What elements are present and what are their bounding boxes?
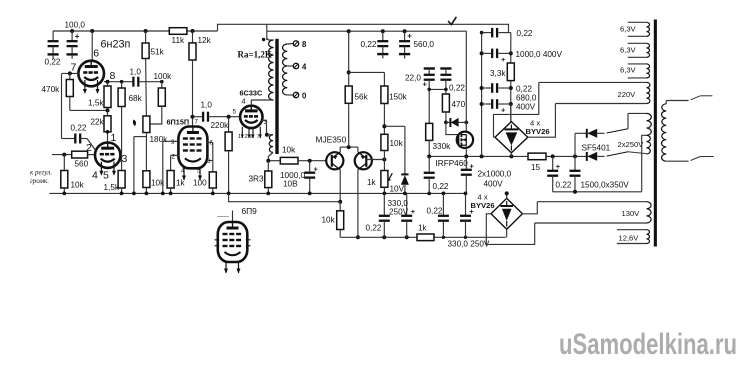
resistor 11k inline	[169, 28, 187, 35]
resistor 1k preset	[381, 171, 388, 188]
wire 6П15П screen	[207, 142, 213, 144]
wire lower ground branch	[229, 193, 341, 201]
capacitor 0,22 filter1	[482, 32, 492, 34]
svg-text:8: 8	[302, 40, 307, 49]
wire branch to 150k	[349, 71, 385, 73]
wire 330k column	[428, 89, 430, 123]
svg-text:1000,0 400V: 1000,0 400V	[516, 50, 563, 59]
svg-text:330,0 250V: 330,0 250V	[448, 240, 490, 249]
output transformer core	[275, 39, 278, 154]
capacitor 330,0 250V polar	[406, 193, 408, 215]
wire tap 0	[288, 94, 294, 96]
wire ground rail	[49, 192, 466, 194]
winding 220V	[539, 81, 647, 83]
diode gate protect	[444, 121, 448, 125]
svg-text:IRFP460: IRFP460	[436, 159, 469, 168]
junction	[169, 192, 173, 196]
resistor 100 (screen)	[209, 172, 216, 188]
wire Q1 collector	[339, 170, 341, 202]
wire bridge2 AC left	[486, 214, 534, 245]
capacitor 1500,0x350V	[574, 156, 576, 170]
resistor 22k	[104, 116, 111, 132]
svg-text:470: 470	[452, 100, 466, 109]
wire 180k left branch	[134, 136, 147, 138]
resistor 1k inline	[417, 234, 434, 241]
svg-text:+: +	[470, 162, 475, 171]
winding 6,3V #3	[628, 63, 647, 65]
capacitor 0,22 coupling	[62, 138, 75, 140]
junction	[132, 192, 136, 196]
svg-text:330k: 330k	[433, 142, 452, 151]
resistor 150k	[381, 86, 388, 104]
svg-text:15: 15	[531, 163, 541, 172]
wire 6С33С pin3 to winding	[261, 121, 267, 135]
svg-text:BYV26: BYV26	[526, 127, 550, 136]
resistor 68k	[120, 80, 124, 84]
svg-text:+: +	[556, 162, 561, 171]
resistor 3,3k	[507, 63, 514, 81]
wire Q2 collector	[357, 170, 359, 238]
wire bridge1 DC top	[510, 104, 512, 122]
svg-text:2x250V: 2x250V	[618, 140, 645, 149]
resistor 12k	[191, 29, 195, 33]
wire bridge2 DC top	[506, 193, 508, 198]
transformer core	[654, 20, 657, 247]
wire 6С33С anode to primary	[250, 100, 252, 106]
wire bridge1 DC bottom	[510, 153, 512, 157]
svg-text:+: +	[411, 207, 416, 216]
svg-text:10k: 10k	[390, 139, 404, 148]
wire 6П9 top lead	[232, 211, 234, 223]
svg-text:6,3V: 6,3V	[620, 25, 637, 34]
svg-text:150k: 150k	[389, 93, 408, 102]
wire bridge1 AC left	[494, 136, 495, 138]
resistor 1k (6П15П cathode)	[167, 171, 174, 189]
svg-text:MJE350: MJE350	[316, 135, 347, 145]
tube 6С33С	[240, 106, 262, 128]
wire primary top + switch	[666, 100, 688, 102]
svg-text:громк.: громк.	[30, 177, 49, 185]
svg-text:0,22: 0,22	[449, 84, 465, 93]
svg-text:100k: 100k	[154, 72, 173, 81]
resistor 10k (reg divider)	[381, 134, 388, 150]
tube 6н23п triode B	[95, 143, 120, 168]
junction	[62, 192, 66, 196]
svg-text:68k: 68k	[129, 94, 143, 103]
output transformer primary lower	[267, 134, 274, 136]
svg-text:1k: 1k	[367, 178, 377, 187]
capacitor 0,22 filter2	[482, 87, 492, 89]
preset wiper arrow	[388, 173, 392, 180]
transformer primary	[662, 104, 667, 161]
capacitor 0,22 (snubber)	[552, 156, 554, 170]
junction	[227, 192, 231, 196]
svg-text:6П9: 6П9	[242, 206, 258, 216]
svg-text:6,3V: 6,3V	[620, 66, 637, 75]
svg-text:4: 4	[302, 63, 307, 72]
resistor 100k	[160, 80, 164, 84]
svg-text:5: 5	[233, 109, 237, 116]
wire 1,5k-22k node	[107, 108, 109, 116]
bridge rectifier 4x BYV26 (bias)	[491, 198, 522, 229]
wire tap 4	[288, 65, 294, 67]
capacitor 330,0 250V polar 2	[465, 193, 467, 215]
svg-text:2: 2	[172, 154, 176, 161]
wire bridge2 DC bottom	[506, 229, 508, 237]
wire negative rail	[340, 236, 417, 238]
capacitor 0,22 gate	[440, 67, 451, 69]
junction	[403, 192, 407, 196]
svg-text:400V: 400V	[484, 180, 504, 189]
svg-text:130V: 130V	[622, 209, 641, 218]
resistor 10k horizontal	[280, 157, 298, 164]
svg-text:560: 560	[75, 160, 89, 169]
wire tap 8	[288, 43, 294, 46]
wire outer top rail with step	[218, 24, 509, 33]
svg-text:+: +	[75, 32, 80, 41]
wire Q1 Q2 emitters	[339, 147, 341, 152]
resistor 330k	[426, 123, 433, 140]
resistor 3R3	[267, 161, 269, 171]
capacitor 100,0 polar	[70, 29, 74, 33]
svg-text:11k: 11k	[172, 36, 185, 45]
svg-text:1,5k: 1,5k	[88, 99, 104, 108]
wire CT return	[553, 191, 642, 193]
wire source to B+ line	[465, 145, 467, 156]
resistor 560 input	[72, 151, 88, 158]
resistor 180k	[143, 116, 150, 133]
svg-text:10k: 10k	[322, 216, 336, 225]
resistor 10k input	[63, 155, 65, 171]
terminal Ø4	[293, 63, 298, 68]
resistor 56k	[345, 86, 352, 103]
zener diode 10V	[401, 173, 408, 175]
svg-text:5: 5	[103, 170, 109, 182]
wire node 470k-22k	[70, 109, 108, 111]
svg-text:1k: 1k	[418, 223, 428, 232]
transistor MJE350 Q1	[326, 152, 343, 169]
junction	[308, 192, 312, 196]
wire bridge2 AC right	[522, 202, 537, 214]
wire anode node y82	[104, 81, 133, 83]
capacitor 2x1000,0 400V	[465, 156, 467, 169]
svg-text:10В: 10В	[283, 180, 298, 189]
svg-text:6П15П: 6П15П	[167, 118, 190, 127]
capacitor 560,0 polar	[403, 29, 407, 33]
wire anode feed triode A	[90, 29, 94, 33]
svg-text:8: 8	[110, 70, 116, 82]
pen tick mark	[449, 17, 457, 24]
capacitor 1,0 coupling A	[132, 77, 134, 87]
wire drain feed	[465, 31, 467, 122]
svg-text:SF5401: SF5401	[582, 144, 611, 153]
MOSFET IRFP460	[457, 132, 473, 148]
capacitor 0,22 rowB-2	[442, 193, 444, 215]
svg-text:10k: 10k	[71, 181, 85, 190]
svg-text:250V: 250V	[389, 208, 409, 217]
svg-text:1,5k: 1,5k	[104, 183, 120, 192]
svg-text:+: +	[501, 55, 506, 64]
svg-text:3: 3	[122, 153, 128, 165]
diode SF5401 upper	[574, 133, 576, 156]
tube 6П15П pentode	[178, 127, 207, 169]
winding 6,3V #1	[628, 21, 647, 23]
resistor 470	[445, 89, 447, 94]
svg-text:10k: 10k	[282, 146, 296, 155]
tube 6П9 pentode	[218, 222, 248, 262]
svg-text:Ra=1,2K: Ra=1,2K	[238, 50, 272, 60]
svg-text:220k: 220k	[211, 121, 230, 130]
wire inner B+ rail	[267, 30, 467, 32]
junction	[442, 192, 446, 196]
winding 2x250V upper	[647, 113, 652, 135]
wire primary feed	[266, 24, 268, 40]
wire 6П15П cathode	[171, 154, 179, 156]
svg-text:6: 6	[250, 134, 253, 140]
junction	[464, 192, 468, 196]
svg-text:3R3: 3R3	[249, 175, 264, 184]
svg-text:56k: 56k	[355, 93, 369, 102]
wire gate lead	[446, 122, 458, 134]
svg-text:220V: 220V	[618, 90, 637, 99]
capacitor 0,22 rowA	[428, 156, 430, 172]
transistor MJE350 Q2	[355, 152, 372, 169]
capacitor 22,0 polar	[424, 67, 435, 69]
svg-text:9: 9	[171, 139, 175, 146]
terminal Ø8	[293, 41, 298, 46]
wire input line	[52, 154, 72, 156]
junction	[161, 192, 165, 196]
capacitor 0,22 rowB-1	[383, 193, 385, 215]
wire left filter bus	[481, 33, 483, 157]
capacitor 1000,0 400V	[482, 52, 492, 54]
wire pin3 to 1,5k	[120, 161, 122, 163]
svg-text:2: 2	[245, 134, 248, 140]
wire bridge1 AC right	[528, 104, 556, 138]
capacitor 0,22 inner	[381, 29, 385, 33]
svg-text:560,0: 560,0	[414, 40, 435, 49]
svg-text:2x1000,0: 2x1000,0	[478, 170, 512, 179]
resistor 15 inline	[528, 153, 546, 160]
tube 6н23п triode A	[78, 61, 104, 87]
junction	[266, 192, 270, 196]
svg-text:+: +	[423, 80, 428, 89]
bridge rectifier 4x BYV26 (HT)	[495, 122, 528, 153]
svg-text:180k: 180k	[150, 135, 169, 144]
svg-text:BYV26: BYV26	[471, 201, 495, 210]
svg-text:4: 4	[242, 97, 246, 106]
diode SF5401 lower	[586, 152, 588, 161]
phase dot	[262, 38, 265, 41]
svg-text:4: 4	[92, 170, 98, 182]
wire B+ line	[429, 155, 528, 157]
svg-text:400V: 400V	[516, 103, 536, 112]
wire center tap	[642, 135, 647, 192]
svg-text:0,22: 0,22	[427, 207, 443, 216]
junction	[427, 192, 431, 196]
wire inner rail feed 56k	[347, 29, 351, 33]
junction	[383, 192, 387, 196]
svg-text:7: 7	[71, 62, 77, 74]
svg-text:к регул.: к регул.	[30, 169, 52, 177]
wire 6П15П grid	[163, 140, 179, 142]
svg-text:+: +	[407, 32, 412, 41]
wire 100k jog	[150, 106, 162, 124]
pin stubs 6С33С	[241, 127, 243, 138]
svg-text:+: +	[314, 165, 319, 174]
svg-text:680,0: 680,0	[516, 94, 537, 103]
terminal Ø0	[293, 92, 298, 97]
svg-text:0,22: 0,22	[556, 181, 572, 190]
wire cathode line	[268, 160, 280, 162]
svg-text:1,0: 1,0	[201, 101, 213, 110]
resistor 470k	[69, 73, 71, 79]
svg-text:100,0: 100,0	[65, 21, 86, 30]
capacitor 1000,0 10В polar	[309, 161, 311, 173]
wire gate RC node	[429, 88, 446, 90]
winding 12,6V	[617, 229, 647, 231]
svg-text:3,3k: 3,3k	[490, 69, 506, 78]
svg-text:7: 7	[257, 134, 260, 140]
svg-text:470k: 470k	[42, 85, 61, 94]
svg-text:6н23п: 6н23п	[101, 39, 131, 51]
svg-text:1500,0x350V: 1500,0x350V	[581, 181, 630, 190]
svg-text:uSamodelkina.ru: uSamodelkina.ru	[559, 328, 737, 361]
svg-text:12,6V: 12,6V	[619, 234, 640, 243]
wire right filter bus	[510, 33, 512, 63]
winding 6,3V #2	[628, 42, 647, 44]
output transformer primary	[267, 38, 274, 40]
pen mark blob	[133, 120, 136, 126]
winding 2x250V lower	[647, 135, 651, 154]
svg-text:0,22: 0,22	[517, 29, 533, 38]
svg-text:3: 3	[207, 158, 211, 165]
heater arrows 6П15П	[183, 169, 185, 181]
svg-text:0,22: 0,22	[433, 182, 449, 191]
svg-text:0,22: 0,22	[45, 58, 61, 67]
resistor 10k (Q1 load)	[339, 202, 341, 211]
svg-text:22,0: 22,0	[405, 74, 421, 83]
svg-text:0,22: 0,22	[516, 85, 532, 94]
wire left B+ rail	[53, 30, 218, 32]
svg-text:6: 6	[93, 48, 99, 60]
resistor 1,5k triode A	[107, 82, 109, 86]
junction	[211, 192, 215, 196]
svg-text:12k: 12k	[198, 36, 212, 45]
svg-text:1,0: 1,0	[130, 68, 142, 77]
heater arrows 6П9	[225, 262, 227, 273]
svg-text:0,22: 0,22	[71, 124, 87, 133]
svg-text:6,3V: 6,3V	[620, 46, 637, 55]
svg-text:0,22: 0,22	[366, 224, 382, 233]
svg-text:0,22: 0,22	[361, 40, 377, 49]
wire Q2 base	[366, 159, 384, 161]
capacitor 680,0 400V	[482, 103, 492, 105]
svg-text:+: +	[501, 106, 506, 115]
wire 6П15П anode line	[191, 115, 195, 119]
junction	[145, 192, 149, 196]
wire grid triode A	[62, 72, 79, 74]
svg-text:0: 0	[302, 92, 307, 101]
capacitor 0,22 top-left	[52, 31, 54, 41]
resistor 1,5k triode B	[118, 171, 125, 189]
svg-text:22k: 22k	[91, 118, 105, 127]
resistor 51k	[144, 29, 148, 33]
junction	[120, 192, 124, 196]
winding 130V	[537, 201, 646, 203]
wire primary bottom + switch	[666, 160, 688, 162]
output transformer secondary	[283, 44, 288, 95]
wire zener branch	[384, 125, 405, 127]
svg-text:1: 1	[238, 134, 241, 140]
svg-text:51k: 51k	[151, 48, 165, 57]
resistor 10k (6П15П grid)	[143, 171, 150, 188]
svg-text:10V: 10V	[390, 185, 405, 194]
resistor 220k	[228, 117, 230, 132]
capacitor 1,0 coupling B	[202, 112, 204, 122]
